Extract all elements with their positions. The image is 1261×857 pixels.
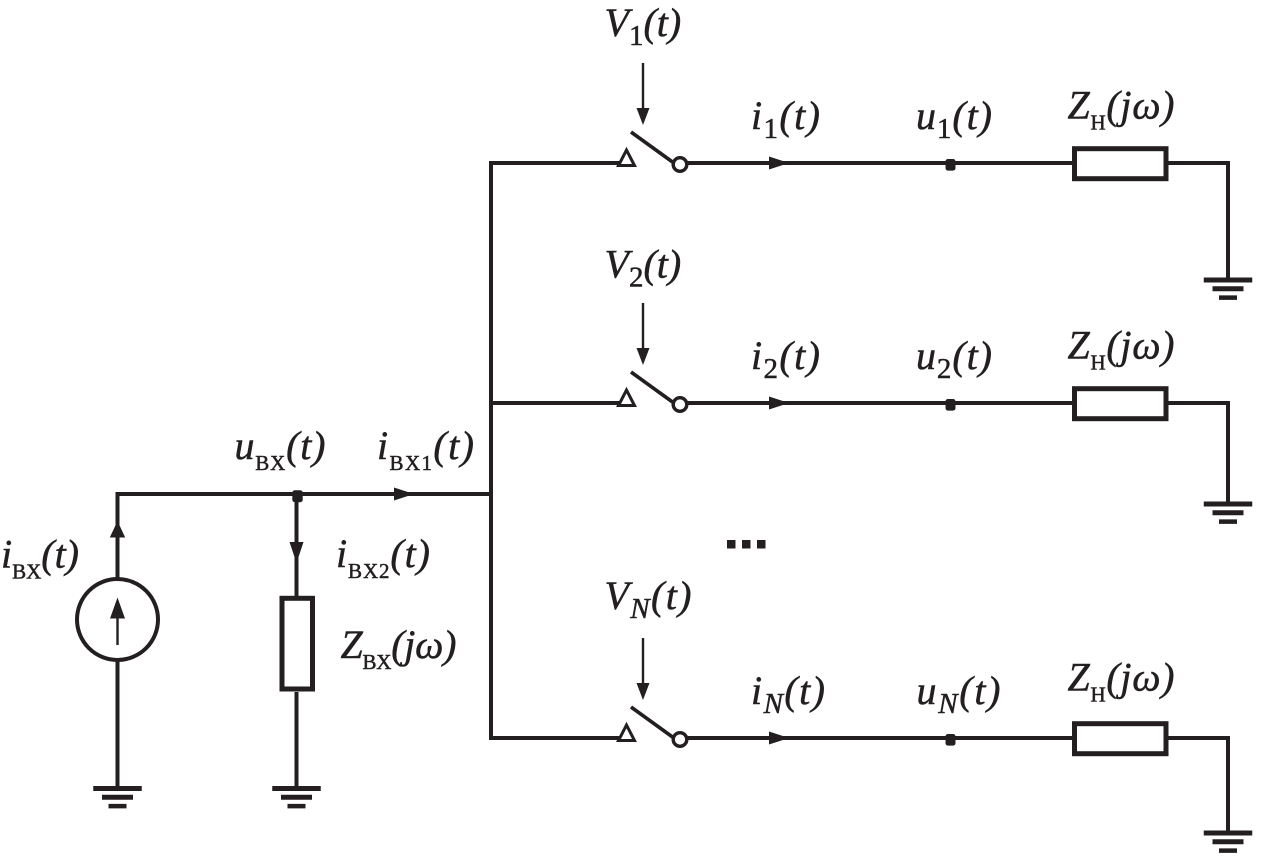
control arrow V1(t) bbox=[637, 63, 650, 125]
wire switch to resistor Z_H branch 1 bbox=[687, 157, 1074, 170]
node u_1 dot bbox=[946, 159, 956, 171]
svg-text:V1(t): V1(t) bbox=[605, 0, 682, 52]
svg-text:i1(t): i1(t) bbox=[751, 93, 820, 145]
ellipsis dots bbox=[727, 540, 766, 549]
switch V2 bbox=[619, 372, 687, 411]
svg-text:ZH(jω): ZH(jω) bbox=[1068, 83, 1175, 135]
ground branch 1 bbox=[1204, 280, 1253, 298]
svg-text:V2(t): V2(t) bbox=[605, 242, 682, 294]
svg-text:iBX1(t): iBX1(t) bbox=[377, 423, 474, 475]
resistor Z_H branch N bbox=[1075, 724, 1167, 754]
wire node u_BX down to Z_BX bbox=[290, 494, 304, 598]
node u_N dot bbox=[946, 734, 956, 746]
svg-text:i2(t): i2(t) bbox=[751, 333, 820, 385]
wire switch to resistor Z_H branch N bbox=[687, 732, 1074, 745]
svg-text:iBX2(t): iBX2(t) bbox=[336, 531, 430, 583]
wire switch to resistor Z_H branch 2 bbox=[687, 397, 1074, 410]
arrow i_BX1 on main wire bbox=[394, 488, 414, 501]
node u_2 dot bbox=[946, 399, 956, 411]
bus node wire vertical bbox=[489, 161, 493, 740]
ground (Z_BX) bbox=[272, 789, 321, 807]
svg-text:ZH(jω): ZH(jω) bbox=[1068, 655, 1175, 707]
node u_BX junction dot bbox=[292, 490, 302, 502]
resistor Z_BX bbox=[282, 598, 313, 689]
svg-text:u1(t): u1(t) bbox=[916, 93, 992, 145]
ground branch 2 bbox=[1204, 504, 1253, 522]
current source i_BX bbox=[77, 579, 158, 660]
resistor Z_H branch 1 bbox=[1075, 149, 1167, 179]
wire bus to switch VN bbox=[489, 736, 620, 740]
ground branch N bbox=[1204, 833, 1253, 851]
switch VN bbox=[619, 707, 687, 746]
wire resistor Z_H to ground branch N bbox=[1166, 738, 1228, 831]
wire resistor Z_H to ground branch 1 bbox=[1166, 163, 1228, 278]
switch V1 bbox=[619, 132, 687, 171]
resistor Z_H branch 2 bbox=[1075, 389, 1167, 419]
ground (current source) bbox=[93, 789, 142, 807]
svg-text:uBX(t): uBX(t) bbox=[235, 423, 326, 475]
control arrow VN(t) bbox=[637, 638, 650, 700]
svg-text:iBX(t): iBX(t) bbox=[1, 532, 79, 584]
svg-text:ZH(jω): ZH(jω) bbox=[1068, 323, 1175, 375]
svg-text:VN(t): VN(t) bbox=[605, 573, 692, 625]
svg-text:uN(t): uN(t) bbox=[917, 668, 1001, 720]
wire Z_BX to ground bbox=[295, 692, 299, 787]
svg-text:ZBX(jω): ZBX(jω) bbox=[341, 622, 457, 674]
wire bus to switch V1 bbox=[489, 161, 620, 165]
wire resistor Z_H to ground branch 2 bbox=[1166, 403, 1228, 502]
wire current source to ground bbox=[116, 660, 120, 787]
control arrow V2(t) bbox=[637, 303, 650, 365]
wire current source to node u_BX bbox=[110, 494, 493, 579]
svg-text:iN(t): iN(t) bbox=[751, 668, 825, 720]
svg-text:u2(t): u2(t) bbox=[916, 333, 992, 385]
wire bus to switch V2 bbox=[489, 401, 620, 405]
